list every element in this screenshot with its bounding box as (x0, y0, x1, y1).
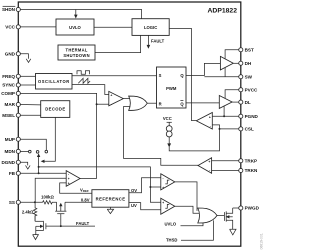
left pin COMP (16, 91, 20, 95)
ground symbol at DGND pin (21, 162, 28, 165)
ground symbol below REFERENCE (109, 207, 111, 209)
wire Q1 gate to FAULT line (60, 214, 62, 226)
left pin FB (16, 171, 20, 175)
comparator U7 (current limit, points left) (196, 113, 212, 130)
wire driver to DL (232, 101, 239, 103)
svg-text:PVCC: PVCC (245, 87, 258, 92)
svg-text:OSCILLATOR: OSCILLATOR (38, 79, 70, 84)
svg-text:2.4kΩ: 2.4kΩ (22, 209, 34, 214)
right pin PVCC (239, 88, 243, 92)
svg-text:CSL: CSL (245, 127, 254, 132)
comparator U3 (PWM comparator) (109, 91, 124, 106)
wire PWM Qbar to low side driver (186, 102, 219, 104)
junction on PGND wire (223, 115, 225, 117)
junction on COMP net (96, 103, 98, 105)
svg-text:+: + (68, 182, 70, 186)
svg-text:DL: DL (245, 100, 251, 105)
wire LOGIC to ILIM comparator output node (169, 29, 196, 121)
current source I1 (166, 122, 172, 147)
wire DECODE select arrow (44, 117, 55, 161)
right pin TRKP (239, 159, 243, 163)
wire oscillator clock to PWM S (72, 75, 157, 77)
wire UVLO input (181, 221, 204, 226)
block THERMAL SHUTDOWN (58, 45, 95, 60)
wire MSEL to DECODE (21, 114, 41, 116)
right pin CSL (239, 127, 243, 131)
svg-text:FB: FB (9, 171, 16, 176)
resistor R2 2.4k (33, 202, 36, 221)
svg-text:UV: UV (131, 203, 137, 208)
svg-text:TRKN: TRKN (245, 168, 258, 173)
wire SHDN to LOGIC (21, 10, 142, 19)
wire CSL to ILIM comparator (212, 125, 219, 129)
right pin DL (239, 100, 243, 104)
svg-text:-: - (209, 169, 210, 173)
svg-text:GND: GND (5, 51, 16, 56)
wire current source to CSL node (169, 129, 219, 151)
wire SS pin net (21, 201, 43, 203)
transistor Q1 (SS clamp) (55, 202, 66, 213)
square wave symbol (77, 71, 90, 75)
wire FB to error amp (21, 172, 67, 174)
left pin SYNC (16, 83, 20, 87)
right pin PWGD (239, 206, 243, 210)
svg-text:+: + (162, 186, 164, 190)
left pin VCC (16, 25, 20, 29)
svg-text:FREQ: FREQ (2, 74, 15, 79)
svg-text:REFERENCE: REFERENCE (96, 196, 126, 201)
svg-text:-: - (163, 210, 164, 214)
IC border box (18, 2, 241, 246)
wire PWM Q to high side driver (186, 63, 220, 75)
left pin MAR (16, 102, 20, 106)
FAULT arrow from LOGIC (147, 35, 149, 45)
svg-text:100kΩ: 100kΩ (41, 195, 54, 200)
sawtooth symbol (78, 78, 90, 83)
junctions on FB ladder (38, 172, 40, 174)
svg-text:S: S (159, 73, 162, 78)
branch to OV comparator (150, 186, 160, 188)
switch contact circles (29, 150, 32, 153)
svg-text:COMP: COMP (1, 91, 15, 96)
wire OV output to power good gate (175, 182, 197, 211)
wire UV threshold (129, 203, 161, 210)
wire MAR to DECODE (21, 104, 41, 106)
svg-text:DGND: DGND (1, 160, 15, 165)
wire SW into driver bottom (224, 67, 226, 77)
block OSCILLATOR (36, 74, 73, 90)
svg-text:-: - (111, 103, 112, 107)
block PWM latch (157, 67, 187, 108)
svg-text:R: R (159, 101, 162, 106)
OR gate U4 (129, 96, 148, 110)
left pin SHDN (16, 7, 20, 11)
wire OV threshold (129, 178, 161, 193)
ground symbol below Q3 (230, 229, 236, 235)
wire FAULT gate line (46, 225, 95, 227)
block DECODE (41, 101, 70, 118)
transistor Q3 (power good open drain) (224, 208, 232, 229)
svg-text:+: + (209, 115, 211, 119)
left pin MUP (16, 137, 20, 141)
svg-text:-: - (210, 124, 211, 128)
wire PGND sense (212, 115, 238, 117)
left pin FREQ (16, 74, 20, 78)
block REFERENCE (92, 190, 129, 208)
svg-text:SHUTDOWN: SHUTDOWN (63, 53, 90, 58)
comparator U10 (UV) (161, 198, 175, 214)
transistor Q2 (fault discharge) (35, 215, 46, 234)
junction on FB sense riser (149, 186, 151, 188)
svg-text:FAULT: FAULT (76, 221, 90, 226)
svg-text:SS: SS (9, 200, 15, 205)
wire MDN to switch contact (21, 150, 29, 152)
svg-text:LOGIC: LOGIC (144, 25, 157, 30)
svg-text:+: + (68, 177, 70, 181)
svg-text:VCC: VCC (163, 116, 172, 121)
wire comparator output to OR gate (123, 98, 130, 100)
wire THERMAL SHUTDOWN to LOGIC (95, 35, 141, 52)
left pin GND (16, 52, 20, 56)
left pin MSEL (16, 113, 20, 117)
wire gate to Q3 (217, 215, 224, 217)
svg-text:MDN: MDN (5, 149, 16, 154)
right pin PGND (239, 114, 243, 118)
svg-text:OV: OV (131, 188, 137, 193)
wiper arrow on FB ladder (38, 157, 40, 174)
svg-text:-: - (68, 173, 69, 177)
svg-text:0.8V: 0.8V (81, 198, 90, 203)
svg-text:PWGD: PWGD (245, 206, 260, 211)
left pin DGND (16, 160, 20, 164)
svg-text:+: + (208, 160, 210, 164)
wire driver to DH (233, 62, 238, 64)
svg-text:MUP: MUP (5, 137, 15, 142)
wire 0.8V reference (65, 201, 92, 203)
wire PVCC to driver top (225, 90, 239, 99)
svg-text:DH: DH (245, 61, 252, 66)
wire OR input down to track comparator output (124, 106, 199, 165)
svg-text:+: + (162, 201, 164, 205)
driver U6 (DL gate driver) (219, 96, 232, 109)
wire error amp output to COMP riser (80, 178, 97, 180)
wire SW sense (204, 76, 238, 78)
svg-text:UVLO: UVLO (165, 221, 177, 226)
svg-text:SHDN: SHDN (2, 7, 16, 12)
wire FB to OV UV comparators (39, 167, 161, 202)
wire VCC to UVLO (21, 26, 57, 28)
wire TRKP input (212, 160, 239, 162)
wire oscillator ramp to PWM comparator (72, 85, 109, 95)
junction at SS (34, 201, 36, 203)
ground symbol at GND pin (21, 54, 29, 59)
ground symbol below Q2 (33, 235, 39, 240)
comparator U9 (OV) (161, 174, 175, 190)
wire ILIM node to OR gate input (124, 105, 132, 107)
wire SYNC to oscillator (21, 84, 36, 86)
wire CSL sense (220, 128, 239, 130)
svg-text:06619-001: 06619-001 (260, 233, 264, 249)
block LOGIC (132, 19, 169, 36)
left pin MDN (16, 149, 20, 153)
wire COMP net (21, 93, 97, 178)
svg-text:-: - (163, 176, 164, 180)
wire BST to driver top (225, 50, 239, 59)
svg-text:FAULT: FAULT (151, 39, 165, 44)
right pin BST (239, 48, 243, 52)
wire PGND to DL driver bottom (223, 106, 225, 116)
wire OR gate to PWM R (147, 102, 156, 104)
svg-text:MSEL: MSEL (2, 113, 15, 118)
svg-text:TRKP: TRKP (245, 158, 258, 163)
left pin SS (16, 200, 20, 204)
driver U5 (DH gate driver) (220, 56, 233, 70)
resistor R1 100k (43, 201, 57, 204)
wire UVLO to LOGIC (94, 26, 132, 28)
svg-text:+: + (110, 93, 112, 97)
svg-text:DECODE: DECODE (45, 107, 65, 112)
wire FREQ to oscillator (21, 75, 36, 77)
wire THSD input (181, 220, 213, 240)
wire MUP to switch contact (21, 139, 47, 150)
svg-text:UVLO: UVLO (69, 25, 81, 30)
OR gate G2 (power good) (198, 208, 217, 223)
wire VREF to error amp input (60, 183, 92, 193)
svg-text:SYNC: SYNC (2, 83, 15, 88)
svg-text:PWM: PWM (166, 86, 177, 91)
wire PWGD (233, 207, 239, 209)
right pin DH (239, 61, 243, 65)
wire SS to error amp input (35, 178, 66, 202)
wire TRKN input (212, 170, 239, 172)
svg-text:VREF: VREF (80, 187, 89, 193)
svg-text:ADP1822: ADP1822 (208, 7, 238, 14)
junction on CSL wire (219, 128, 221, 130)
right pin SW (239, 75, 243, 79)
wire comparator inverting tap (97, 103, 109, 105)
svg-text:PGND: PGND (245, 114, 259, 119)
block UVLO (56, 19, 94, 35)
svg-text:BST: BST (245, 48, 254, 53)
arrow from SHDN line into UVLO (75, 10, 77, 16)
right pin TRKN (239, 168, 243, 172)
svg-text:SW: SW (245, 74, 253, 79)
error amp U2 (66, 171, 80, 187)
comparator U8 (tracking, points left) (198, 158, 212, 174)
wire UV output to power good gate (175, 206, 200, 213)
svg-text:THSD: THSD (166, 238, 177, 243)
svg-text:MAR: MAR (5, 102, 16, 107)
svg-text:VCC: VCC (5, 25, 15, 30)
